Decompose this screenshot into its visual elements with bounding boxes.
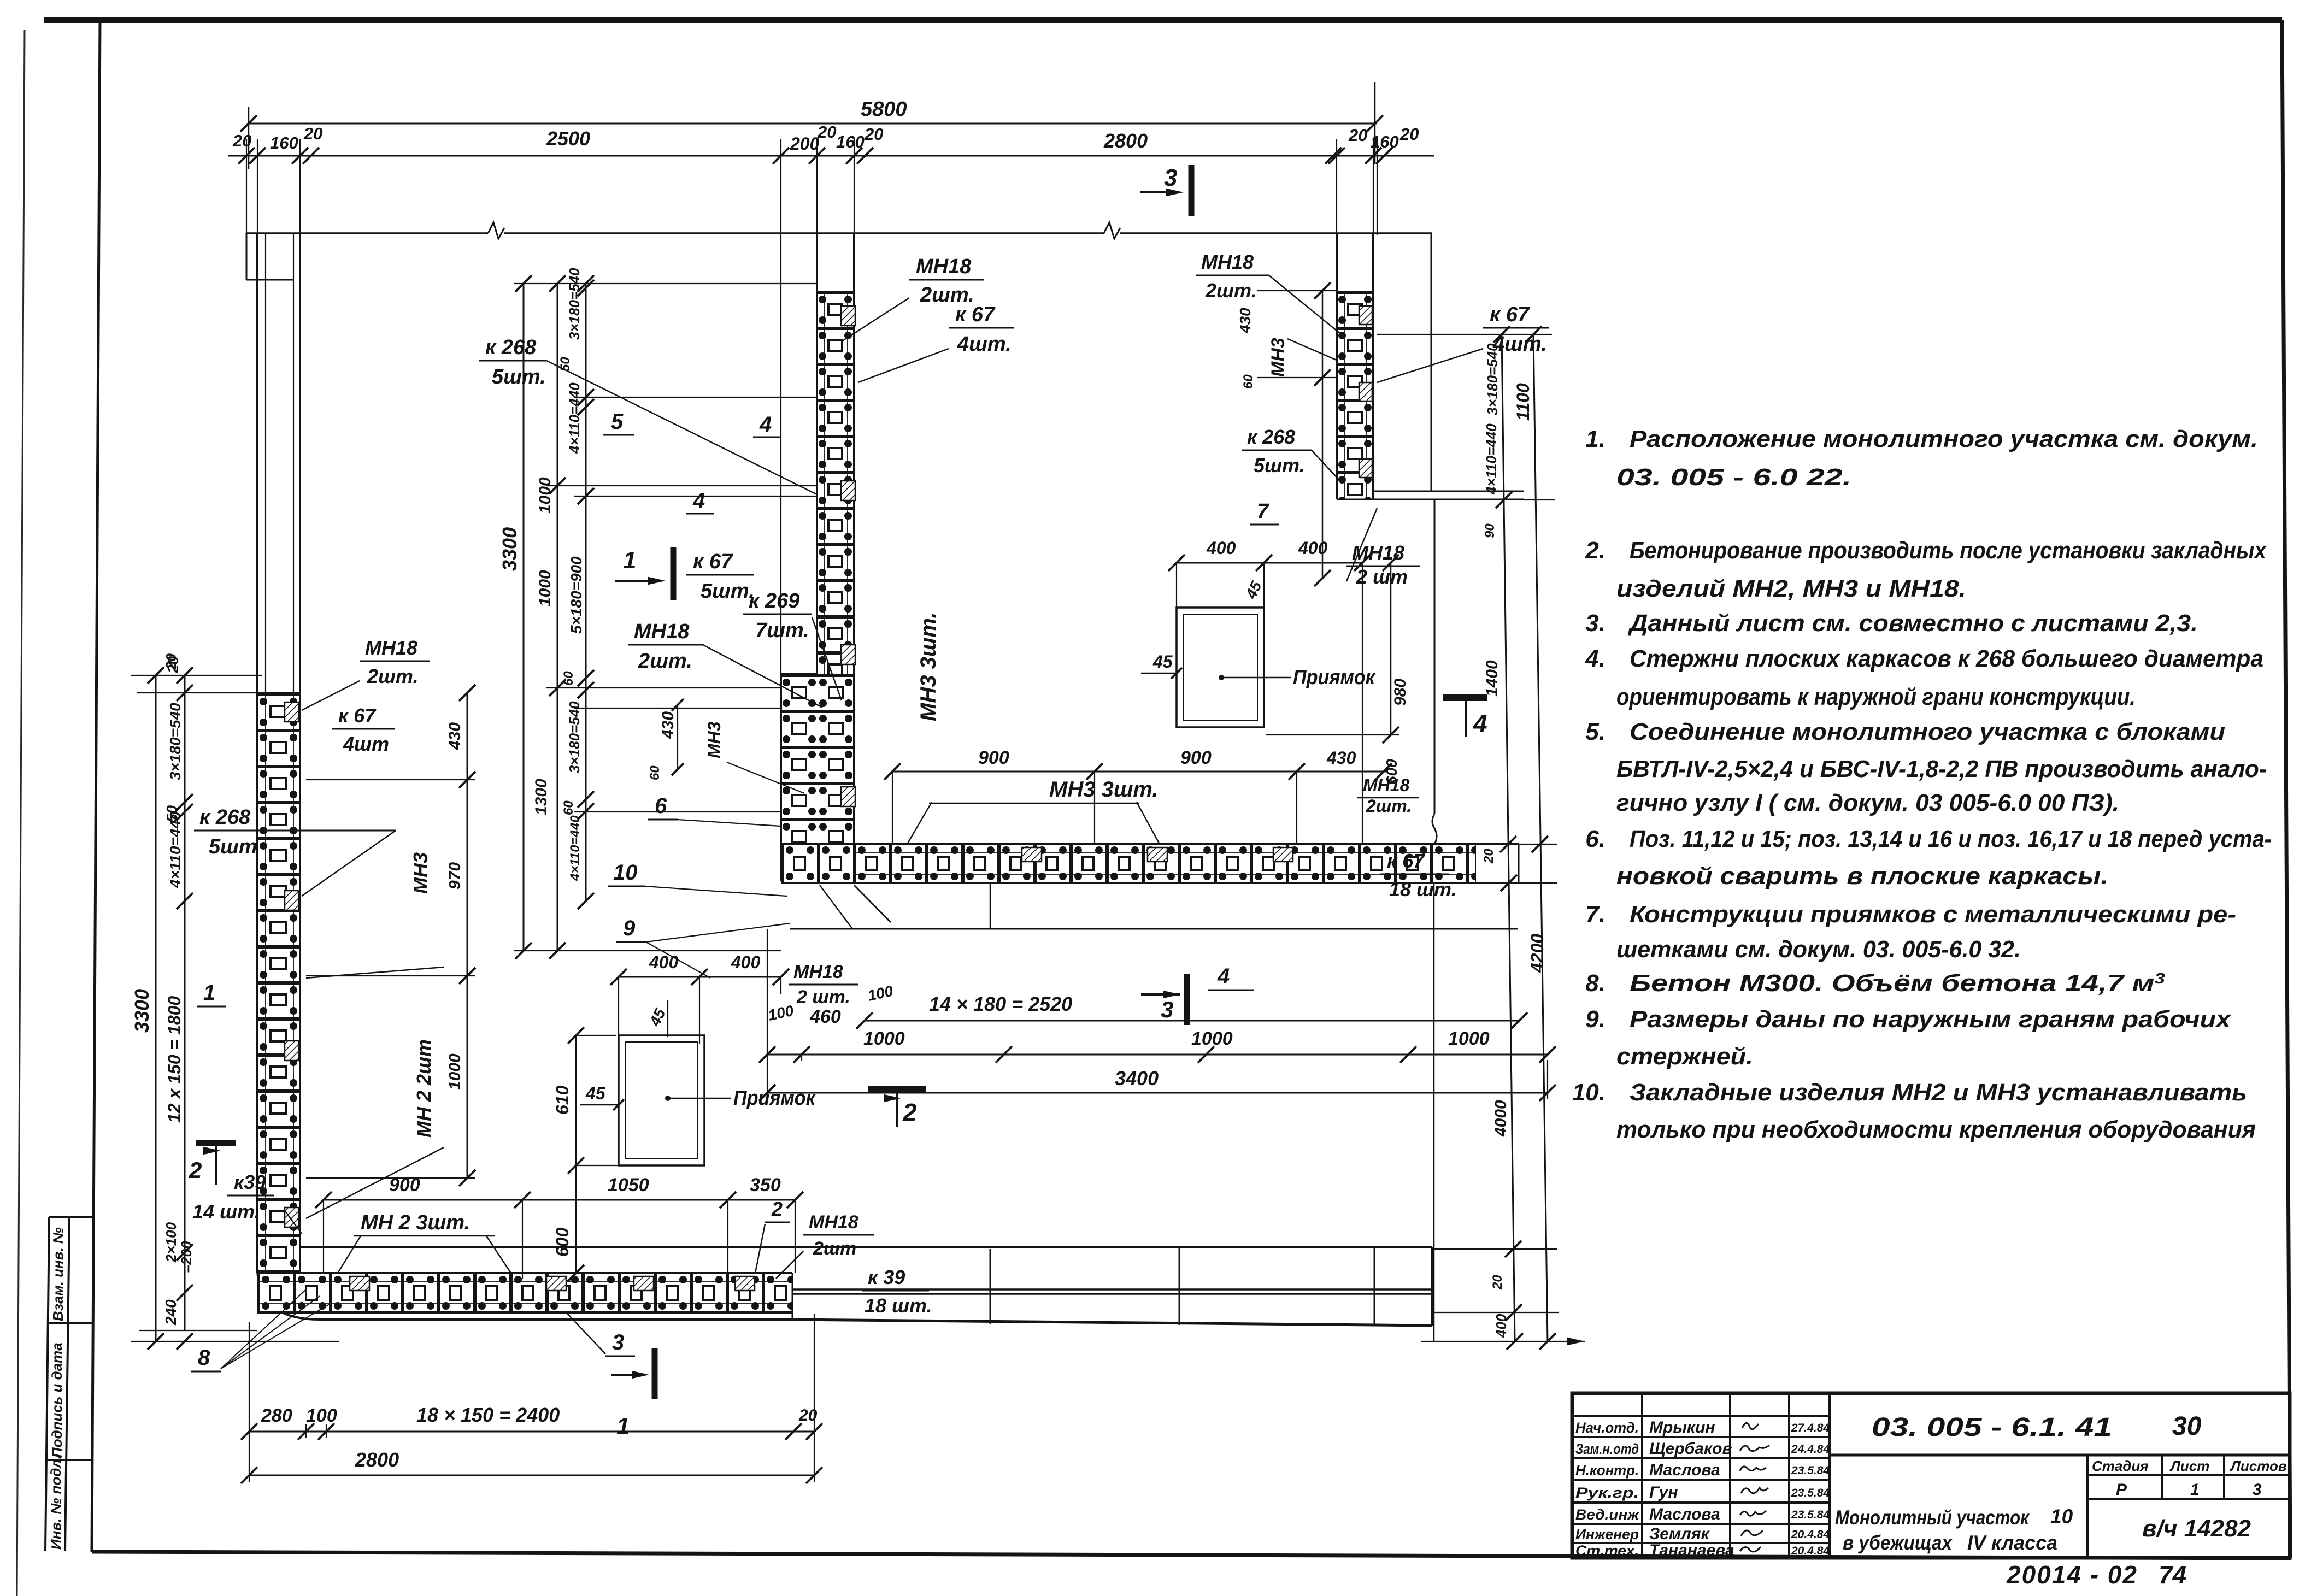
- frame left: [92, 20, 100, 1552]
- inner chain 430/970/1000: [467, 693, 468, 1178]
- svg-text:новкой сварить в плоские карка: новкой сварить в плоские каркасы.: [1616, 863, 2108, 890]
- svg-text:900: 900: [389, 1175, 420, 1195]
- svg-text:ориентировать к наружной грани: ориентировать к наружной грани конструкц…: [1616, 684, 2136, 710]
- svg-text:2×100: 2×100: [163, 1222, 179, 1263]
- frame right: [2282, 20, 2290, 1558]
- svg-text:4: 4: [692, 489, 705, 513]
- sheet scan edge left: [17, 30, 25, 1596]
- svg-text:20: 20: [1481, 849, 1496, 864]
- svg-text:изделий МН2, МН3 и МН18.: изделий МН2, МН3 и МН18.: [1616, 575, 1966, 602]
- svg-text:2шт.: 2шт.: [1366, 796, 1412, 816]
- dim total 5800: [249, 123, 1377, 125]
- svg-text:4×110=440: 4×110=440: [568, 815, 583, 881]
- dim chain 20/160/20 2500 200 20/160/20 2800 20/160/20: [228, 155, 1434, 157]
- svg-text:в/ч 14282: в/ч 14282: [2142, 1515, 2251, 1542]
- svg-text:МН18: МН18: [1352, 541, 1404, 564]
- svg-text:к 67: к 67: [1490, 303, 1530, 326]
- svg-text:Зам.н.отд: Зам.н.отд: [1575, 1441, 1639, 1457]
- svg-text:1000: 1000: [536, 570, 554, 606]
- svg-text:4шт: 4шт: [343, 733, 389, 755]
- svg-text:3×180=540: 3×180=540: [167, 703, 184, 780]
- svg-text:Соединение монолитного участка: Соединение монолитного участка с блоками: [1630, 719, 2225, 745]
- svg-text:Данный лист см. совместно с ли: Данный лист см. совместно с листами 2,3.: [1627, 610, 2198, 637]
- pit1 dims: [619, 976, 781, 978]
- section flag 4 (T4): [1443, 694, 1487, 701]
- svg-text:к 67: к 67: [338, 704, 377, 727]
- svg-text:600: 600: [552, 1227, 572, 1257]
- svg-text:23.5.84: 23.5.84: [1791, 1464, 1830, 1477]
- svg-text:240: 240: [162, 1299, 179, 1326]
- right room edge verticals: [1432, 1247, 1433, 1326]
- svg-text:60: 60: [561, 671, 576, 686]
- chain segments 20/540/50/440/1800/200/240: [184, 675, 186, 1330]
- wall1 upper plain double lines: [256, 233, 258, 693]
- svg-text:Листов: Листов: [2230, 1458, 2287, 1474]
- svg-text:460: 460: [809, 1006, 841, 1027]
- svg-text:14 × 180 = 2520: 14 × 180 = 2520: [929, 993, 1072, 1015]
- svg-text:20: 20: [303, 124, 322, 143]
- svg-text:к 268: к 268: [485, 336, 537, 359]
- margin box column: [45, 1217, 49, 1551]
- svg-text:2 шт: 2 шт: [1356, 566, 1408, 588]
- extension lines from chain down to wall: [246, 139, 247, 235]
- svg-text:Размеры даны по наружным граня: Размеры даны по наружным граням рабочих: [1630, 1006, 2232, 1033]
- svg-text:24.4.84: 24.4.84: [1791, 1443, 1830, 1456]
- svg-text:к39: к39: [234, 1171, 266, 1193]
- svg-text:9.: 9.: [1585, 1006, 1606, 1033]
- svg-text:1000: 1000: [1448, 1028, 1490, 1049]
- svg-text:20.4.84: 20.4.84: [1791, 1545, 1830, 1557]
- corner chamfer to horizontal strip: [854, 885, 891, 922]
- svg-text:к 268: к 268: [199, 806, 251, 829]
- svg-text:Тананаева: Тананаева: [1649, 1541, 1734, 1559]
- section flag 2 (T2): [868, 1086, 926, 1093]
- svg-text:4200: 4200: [1527, 934, 1547, 973]
- svg-text:1: 1: [623, 547, 636, 574]
- svg-text:430: 430: [1237, 308, 1254, 334]
- svg-text:БВТЛ-IV-2,5×2,4 и БВС-IV-1,8-2: БВТЛ-IV-2,5×2,4 и БВС-IV-1,8-2,2 ПВ прои…: [1616, 756, 2267, 782]
- frame top: [44, 17, 2282, 23]
- svg-text:20: 20: [864, 125, 883, 144]
- svg-text:20: 20: [817, 122, 836, 142]
- svg-text:5шт.: 5шт.: [492, 366, 546, 388]
- bottom wall embed plates: [350, 1276, 369, 1291]
- svg-text:20: 20: [1399, 125, 1419, 144]
- extension horizontals left chains: [131, 675, 262, 676]
- svg-text:к 67: к 67: [955, 303, 996, 326]
- svg-text:900: 900: [1180, 747, 1212, 768]
- svg-text:Вед.инж: Вед.инж: [1575, 1506, 1640, 1523]
- svg-text:МН18: МН18: [793, 962, 843, 982]
- svg-text:18 шт.: 18 шт.: [865, 1294, 932, 1317]
- total 2800: [249, 1475, 814, 1476]
- middle strip embed plates: [1022, 847, 1042, 862]
- svg-text:30: 30: [2172, 1412, 2202, 1441]
- wall1 embed plates (hatched): [285, 702, 299, 722]
- svg-text:1000: 1000: [863, 1028, 905, 1049]
- title block horizontals: [1572, 1415, 1830, 1417]
- svg-text:12 x 150 = 1800: 12 x 150 = 1800: [164, 996, 184, 1123]
- svg-text:60: 60: [648, 765, 662, 780]
- svg-text:2: 2: [902, 1098, 917, 1127]
- svg-text:60: 60: [561, 800, 576, 815]
- svg-text:6: 6: [655, 794, 667, 818]
- svg-text:Бетонирование производить посл: Бетонирование производить после установк…: [1630, 537, 2267, 564]
- svg-text:430: 430: [659, 711, 677, 739]
- svg-text:Щербаков: Щербаков: [1649, 1440, 1732, 1458]
- svg-text:3: 3: [2253, 1481, 2262, 1499]
- svg-text:МН3: МН3: [704, 721, 724, 758]
- trapezoid leader for MH3: [907, 802, 932, 844]
- svg-text:400: 400: [1206, 538, 1236, 558]
- svg-text:5.: 5.: [1585, 719, 1606, 745]
- svg-text:5×180=900: 5×180=900: [568, 556, 585, 634]
- frame bottom: [92, 1552, 2291, 1558]
- svg-text:4: 4: [759, 413, 772, 437]
- svg-text:4шт.: 4шт.: [957, 333, 1012, 356]
- svg-text:1100: 1100: [1513, 383, 1533, 421]
- svg-text:74: 74: [2159, 1560, 2186, 1589]
- svg-text:2: 2: [771, 1198, 783, 1220]
- 1000 chain: [767, 1054, 1548, 1056]
- svg-text:МН18: МН18: [809, 1212, 858, 1233]
- svg-text:МН 2 2шт: МН 2 2шт: [413, 1039, 435, 1138]
- svg-text:=200: =200: [178, 1241, 195, 1273]
- svg-text:2800: 2800: [355, 1448, 399, 1471]
- svg-text:280: 280: [261, 1405, 292, 1426]
- svg-text:4×110=440: 4×110=440: [1483, 423, 1499, 495]
- svg-text:45: 45: [585, 1083, 606, 1103]
- svg-text:8: 8: [198, 1346, 210, 1370]
- wall3 embed plates: [1359, 306, 1372, 325]
- svg-text:Взам. инв. №: Взам. инв. №: [50, 1227, 66, 1321]
- svg-text:IV класса: IV класса: [1967, 1532, 2057, 1554]
- top wall cut line with breaks: [246, 232, 488, 234]
- svg-text:3: 3: [1161, 997, 1173, 1022]
- svg-text:5: 5: [611, 410, 624, 434]
- title block outer: [1572, 1393, 2290, 1558]
- svg-text:гично узлу I ( см. докум. 03 0: гично узлу I ( см. докум. 03 005-6.0 00 …: [1616, 790, 2119, 816]
- wall2 embed plates: [841, 306, 855, 326]
- section flag 1 (bottom): [652, 1348, 658, 1399]
- svg-text:7шт.: 7шт.: [755, 619, 809, 642]
- svg-text:Расположение монолитного участ: Расположение монолитного участка см. док…: [1630, 426, 2258, 452]
- svg-text:Бетон М300. Объём бетона 14,7: Бетон М300. Объём бетона 14,7 м3: [1630, 970, 2166, 997]
- svg-text:Земляк: Земляк: [1649, 1525, 1710, 1543]
- svg-text:7.: 7.: [1585, 901, 1606, 928]
- svg-text:стержней.: стержней.: [1616, 1043, 1753, 1070]
- svg-text:2 шт.: 2 шт.: [796, 987, 850, 1008]
- svg-text:400: 400: [649, 952, 679, 972]
- 14x180=2520 line: [865, 1020, 1519, 1022]
- svg-text:3×180=540: 3×180=540: [566, 268, 583, 340]
- svg-text:МН3 3шт.: МН3 3шт.: [916, 612, 940, 721]
- svg-text:Ст.тех.: Ст.тех.: [1575, 1542, 1639, 1559]
- svg-text:Инженер: Инженер: [1575, 1526, 1639, 1542]
- svg-text:90: 90: [1483, 523, 1497, 538]
- svg-text:МН3 3шт.: МН3 3шт.: [1049, 778, 1159, 802]
- pit1 vertical dims 610/600: [575, 1035, 577, 1273]
- svg-text:5шт: 5шт: [209, 835, 257, 858]
- svg-text:1300: 1300: [532, 779, 550, 815]
- svg-text:27.4.84: 27.4.84: [1791, 1422, 1830, 1434]
- svg-text:Мрыкин: Мрыкин: [1649, 1418, 1715, 1436]
- wall3 bottom return lines: [1373, 491, 1524, 492]
- svg-text:4.: 4.: [1585, 645, 1606, 672]
- svg-text:160: 160: [270, 133, 298, 152]
- svg-text:1: 1: [616, 1413, 630, 1440]
- svg-text:23.5.84: 23.5.84: [1791, 1509, 1830, 1521]
- svg-text:200: 200: [790, 134, 820, 154]
- svg-text:20: 20: [1348, 126, 1367, 145]
- chain 3300 total: [155, 675, 157, 1341]
- svg-text:10: 10: [613, 861, 638, 885]
- svg-text:в убежищах: в убежищах: [1843, 1532, 1953, 1554]
- svg-text:400: 400: [1298, 538, 1328, 558]
- svg-text:Гун: Гун: [1649, 1483, 1678, 1501]
- svg-text:350: 350: [750, 1175, 781, 1195]
- svg-text:4×110=440: 4×110=440: [566, 382, 583, 454]
- svg-text:4: 4: [1473, 709, 1487, 738]
- svg-text:1000: 1000: [536, 477, 554, 514]
- svg-text:160: 160: [836, 132, 865, 151]
- svg-text:03. 005 - 6.0 22.: 03. 005 - 6.0 22.: [1616, 464, 1851, 491]
- svg-text:5шт.: 5шт.: [701, 580, 755, 603]
- svg-text:МН18: МН18: [365, 637, 417, 659]
- svg-text:20: 20: [163, 653, 179, 670]
- svg-text:Поз. 11,12 и 15; поз. 13,14 и: Поз. 11,12 и 15; поз. 13,14 и 16 и поз. …: [1630, 826, 2272, 852]
- svg-text:Маслова: Маслова: [1649, 1505, 1720, 1523]
- svg-text:10.: 10.: [1572, 1079, 1606, 1106]
- svg-text:18 шт.: 18 шт.: [1389, 878, 1457, 900]
- bottom chains 280/100 + 18x150=2400: [249, 1431, 814, 1433]
- svg-text:к 67: к 67: [1387, 850, 1425, 872]
- svg-text:Стадия: Стадия: [2092, 1458, 2149, 1474]
- svg-text:610: 610: [552, 1085, 572, 1115]
- svg-text:430: 430: [446, 722, 464, 750]
- wall1 top corner inner lines: [246, 233, 248, 280]
- svg-text:900: 900: [978, 747, 1009, 768]
- svg-text:3: 3: [1164, 164, 1177, 191]
- svg-text:1: 1: [2190, 1481, 2200, 1499]
- svg-text:4000: 4000: [1492, 1100, 1510, 1137]
- svg-text:только при необходимости крепл: только при необходимости крепления обору…: [1616, 1116, 2256, 1143]
- svg-text:2800: 2800: [1103, 129, 1148, 152]
- svg-text:8.: 8.: [1585, 970, 1606, 997]
- svg-text:20014 - 02: 20014 - 02: [2006, 1560, 2138, 1589]
- svg-text:к 268: к 268: [1247, 426, 1295, 448]
- svg-text:шетками см. докум. 03. 005-6.0: шетками см. докум. 03. 005-6.0 32.: [1616, 936, 2021, 963]
- svg-text:6.: 6.: [1585, 826, 1606, 852]
- svg-text:160: 160: [1371, 132, 1399, 151]
- svg-text:2: 2: [189, 1157, 202, 1183]
- svg-text:2шт: 2шт: [813, 1238, 856, 1259]
- svg-text:1000: 1000: [446, 1053, 464, 1090]
- svg-text:Конструкции приямков с металли: Конструкции приямков с металлическими ре…: [1630, 901, 2236, 928]
- svg-text:Р: Р: [2116, 1481, 2127, 1499]
- svg-text:23.5.84: 23.5.84: [1791, 1487, 1830, 1499]
- svg-text:Нач.отд.: Нач.отд.: [1575, 1420, 1639, 1436]
- svg-text:3: 3: [612, 1330, 624, 1354]
- svg-text:3×180=540: 3×180=540: [566, 701, 583, 773]
- right chain extensions: [1377, 334, 1552, 335]
- svg-text:МН18: МН18: [1363, 775, 1410, 795]
- svg-text:9: 9: [623, 916, 636, 940]
- svg-text:10: 10: [2050, 1505, 2073, 1528]
- svg-text:МН3: МН3: [1268, 338, 1289, 377]
- svg-text:3×180=540: 3×180=540: [1484, 343, 1501, 415]
- svg-text:1000: 1000: [1191, 1028, 1233, 1049]
- svg-text:Стержни плоских каркасов к 268: Стержни плоских каркасов к 268 большего …: [1630, 645, 2263, 672]
- svg-text:Лист: Лист: [2169, 1458, 2209, 1474]
- svg-text:МН18: МН18: [916, 255, 972, 278]
- svg-text:400: 400: [731, 952, 761, 972]
- wall3 left small dims: [1322, 291, 1324, 578]
- svg-text:03. 005 - 6.1. 41: 03. 005 - 6.1. 41: [1872, 1413, 2112, 1442]
- svg-text:1.: 1.: [1585, 426, 1606, 452]
- svg-text:20: 20: [1490, 1275, 1505, 1290]
- 900 / 1050 / 350 chain: [324, 1199, 795, 1201]
- svg-text:2шт.: 2шт.: [1205, 279, 1257, 302]
- svg-text:980: 980: [1391, 679, 1409, 706]
- svg-text:3300: 3300: [131, 989, 153, 1033]
- svg-text:5шт.: 5шт.: [1254, 454, 1305, 476]
- svg-text:1050: 1050: [608, 1175, 649, 1195]
- svg-text:Приямок: Приямок: [1293, 666, 1376, 689]
- svg-text:МН18: МН18: [634, 620, 690, 643]
- svg-text:7: 7: [1257, 500, 1269, 523]
- svg-text:430: 430: [1326, 748, 1356, 768]
- svg-text:2шт.: 2шт.: [638, 650, 692, 673]
- svg-text:100: 100: [306, 1405, 337, 1426]
- total 3400: [767, 1092, 1548, 1094]
- svg-text:Н.контр.: Н.контр.: [1575, 1462, 1639, 1479]
- svg-text:МН 2 3шт.: МН 2 3шт.: [361, 1211, 470, 1234]
- svg-text:2.: 2.: [1585, 537, 1606, 564]
- svg-text:Подпись и дата: Подпись и дата: [49, 1342, 65, 1458]
- wall2 widened lower part: [781, 674, 854, 881]
- svg-text:МН3: МН3: [409, 852, 432, 894]
- svg-text:1400: 1400: [1483, 660, 1501, 697]
- svg-text:1: 1: [203, 981, 215, 1005]
- svg-text:к 269: к 269: [749, 590, 799, 613]
- svg-text:3.: 3.: [1585, 610, 1606, 637]
- pit2 dims: [1177, 562, 1362, 564]
- svg-text:2500: 2500: [546, 127, 590, 150]
- svg-text:4: 4: [1217, 964, 1230, 988]
- bottom wall right plain part: [301, 1246, 1432, 1248]
- svg-text:Закладные изделия МН2 и МН3 ус: Закладные изделия МН2 и МН3 устанавливат…: [1630, 1079, 2247, 1106]
- svg-text:5800: 5800: [861, 98, 907, 121]
- svg-text:970: 970: [446, 862, 464, 890]
- svg-text:Инв. № подл.: Инв. № подл.: [48, 1455, 64, 1550]
- svg-text:3400: 3400: [1115, 1067, 1159, 1089]
- svg-text:14 шт.: 14 шт.: [192, 1200, 260, 1223]
- svg-text:Рук.гр.: Рук.гр.: [1575, 1485, 1639, 1501]
- svg-text:18 × 150 = 2400: 18 × 150 = 2400: [416, 1404, 560, 1426]
- svg-text:Маслова: Маслова: [1649, 1461, 1720, 1479]
- svg-text:4×110=440: 4×110=440: [167, 811, 184, 888]
- svg-text:Монолитный участок: Монолитный участок: [1835, 1506, 2030, 1529]
- svg-text:60: 60: [1241, 374, 1256, 389]
- svg-text:45: 45: [1152, 652, 1173, 672]
- svg-text:Приямок: Приямок: [733, 1087, 816, 1110]
- svg-text:3300: 3300: [498, 527, 521, 571]
- bottom-left corner curve: [257, 1268, 320, 1320]
- svg-text:к 67: к 67: [693, 550, 733, 573]
- section flag 2 (left): [196, 1140, 236, 1146]
- wall1 hatched block strip: [257, 693, 300, 1273]
- title block verticals: [1641, 1393, 1643, 1558]
- svg-text:20: 20: [232, 131, 251, 150]
- svg-text:МН18: МН18: [1201, 251, 1254, 273]
- svg-text:20.4.84: 20.4.84: [1791, 1528, 1830, 1541]
- svg-text:400: 400: [1493, 1314, 1509, 1338]
- svg-text:к 39: к 39: [868, 1266, 905, 1288]
- svg-text:2шт.: 2шт.: [367, 665, 419, 687]
- extension horizontals mid chains: [514, 283, 817, 284]
